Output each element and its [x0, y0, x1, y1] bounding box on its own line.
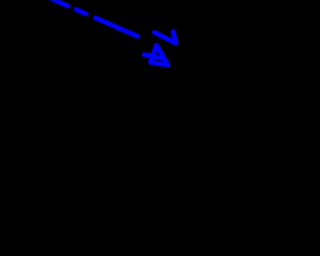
wire: dashed lead segment 3 [95, 18, 137, 36]
arrowhead tick [173, 32, 176, 44]
arrowhead bar [154, 32, 174, 42]
diode D1: crossbar lead [144, 55, 163, 59]
wire: dashed lead segment 2 [76, 10, 86, 15]
wire: dashed lead segment 1 [42, 0, 68, 6]
diode D1: open triangle [150, 45, 168, 65]
